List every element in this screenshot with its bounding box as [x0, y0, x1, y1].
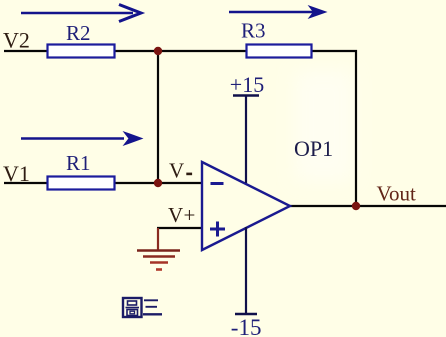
label V+ (non-inverting input net) — [168, 203, 195, 227]
wire node A to R3 — [158, 50, 247, 52]
svg-text:+: + — [184, 203, 196, 227]
node B junction dot — [154, 179, 162, 187]
wire R1 to node B — [114, 182, 158, 184]
svg-text:V1: V1 — [3, 161, 30, 186]
wire node B to op-amp inverting input — [158, 182, 202, 184]
svg-text:R2: R2 — [66, 21, 91, 45]
current-direction arrow (top right) — [229, 6, 326, 18]
node A junction dot — [154, 47, 162, 55]
wire R3 to feedback corner and down to output node — [311, 51, 356, 206]
wire V2 input — [4, 50, 47, 52]
wire non-inverting input V+ — [157, 227, 202, 229]
svg-text:OP1: OP1 — [294, 136, 333, 161]
op-amp non-inverting input plus sign — [210, 222, 225, 237]
svg-text:-15: -15 — [231, 315, 262, 337]
svg-text:R3: R3 — [241, 19, 266, 43]
svg-text:V: V — [169, 159, 184, 183]
wire V1 input — [4, 182, 47, 184]
wire node A down to node B — [157, 51, 159, 183]
ground symbol — [137, 228, 180, 270]
current-direction arrow (middle left) — [21, 132, 142, 145]
wire op-amp output to right edge — [289, 205, 446, 207]
+15 power rail symbol — [233, 96, 259, 184]
op-amp OP1 triangle — [202, 162, 290, 250]
svg-text:V2: V2 — [3, 28, 30, 53]
resistor R2 — [48, 45, 115, 58]
wire R2 to node A — [114, 50, 158, 52]
svg-text:R1: R1 — [66, 151, 91, 175]
op-amp inverting input minus sign — [211, 182, 224, 185]
resistor R1 — [48, 177, 115, 190]
-15 power rail symbol — [235, 227, 257, 314]
svg-text:Vout: Vout — [377, 182, 416, 206]
svg-text:V: V — [168, 203, 183, 227]
label V- (inverting input net) — [169, 159, 192, 183]
output node junction dot — [352, 202, 360, 210]
svg-text:+15: +15 — [230, 72, 264, 97]
current-direction arrow (top left) — [21, 5, 141, 22]
caption 圖三 (Figure 3) drawn glyphs — [123, 298, 162, 317]
resistor R3 — [247, 45, 312, 58]
